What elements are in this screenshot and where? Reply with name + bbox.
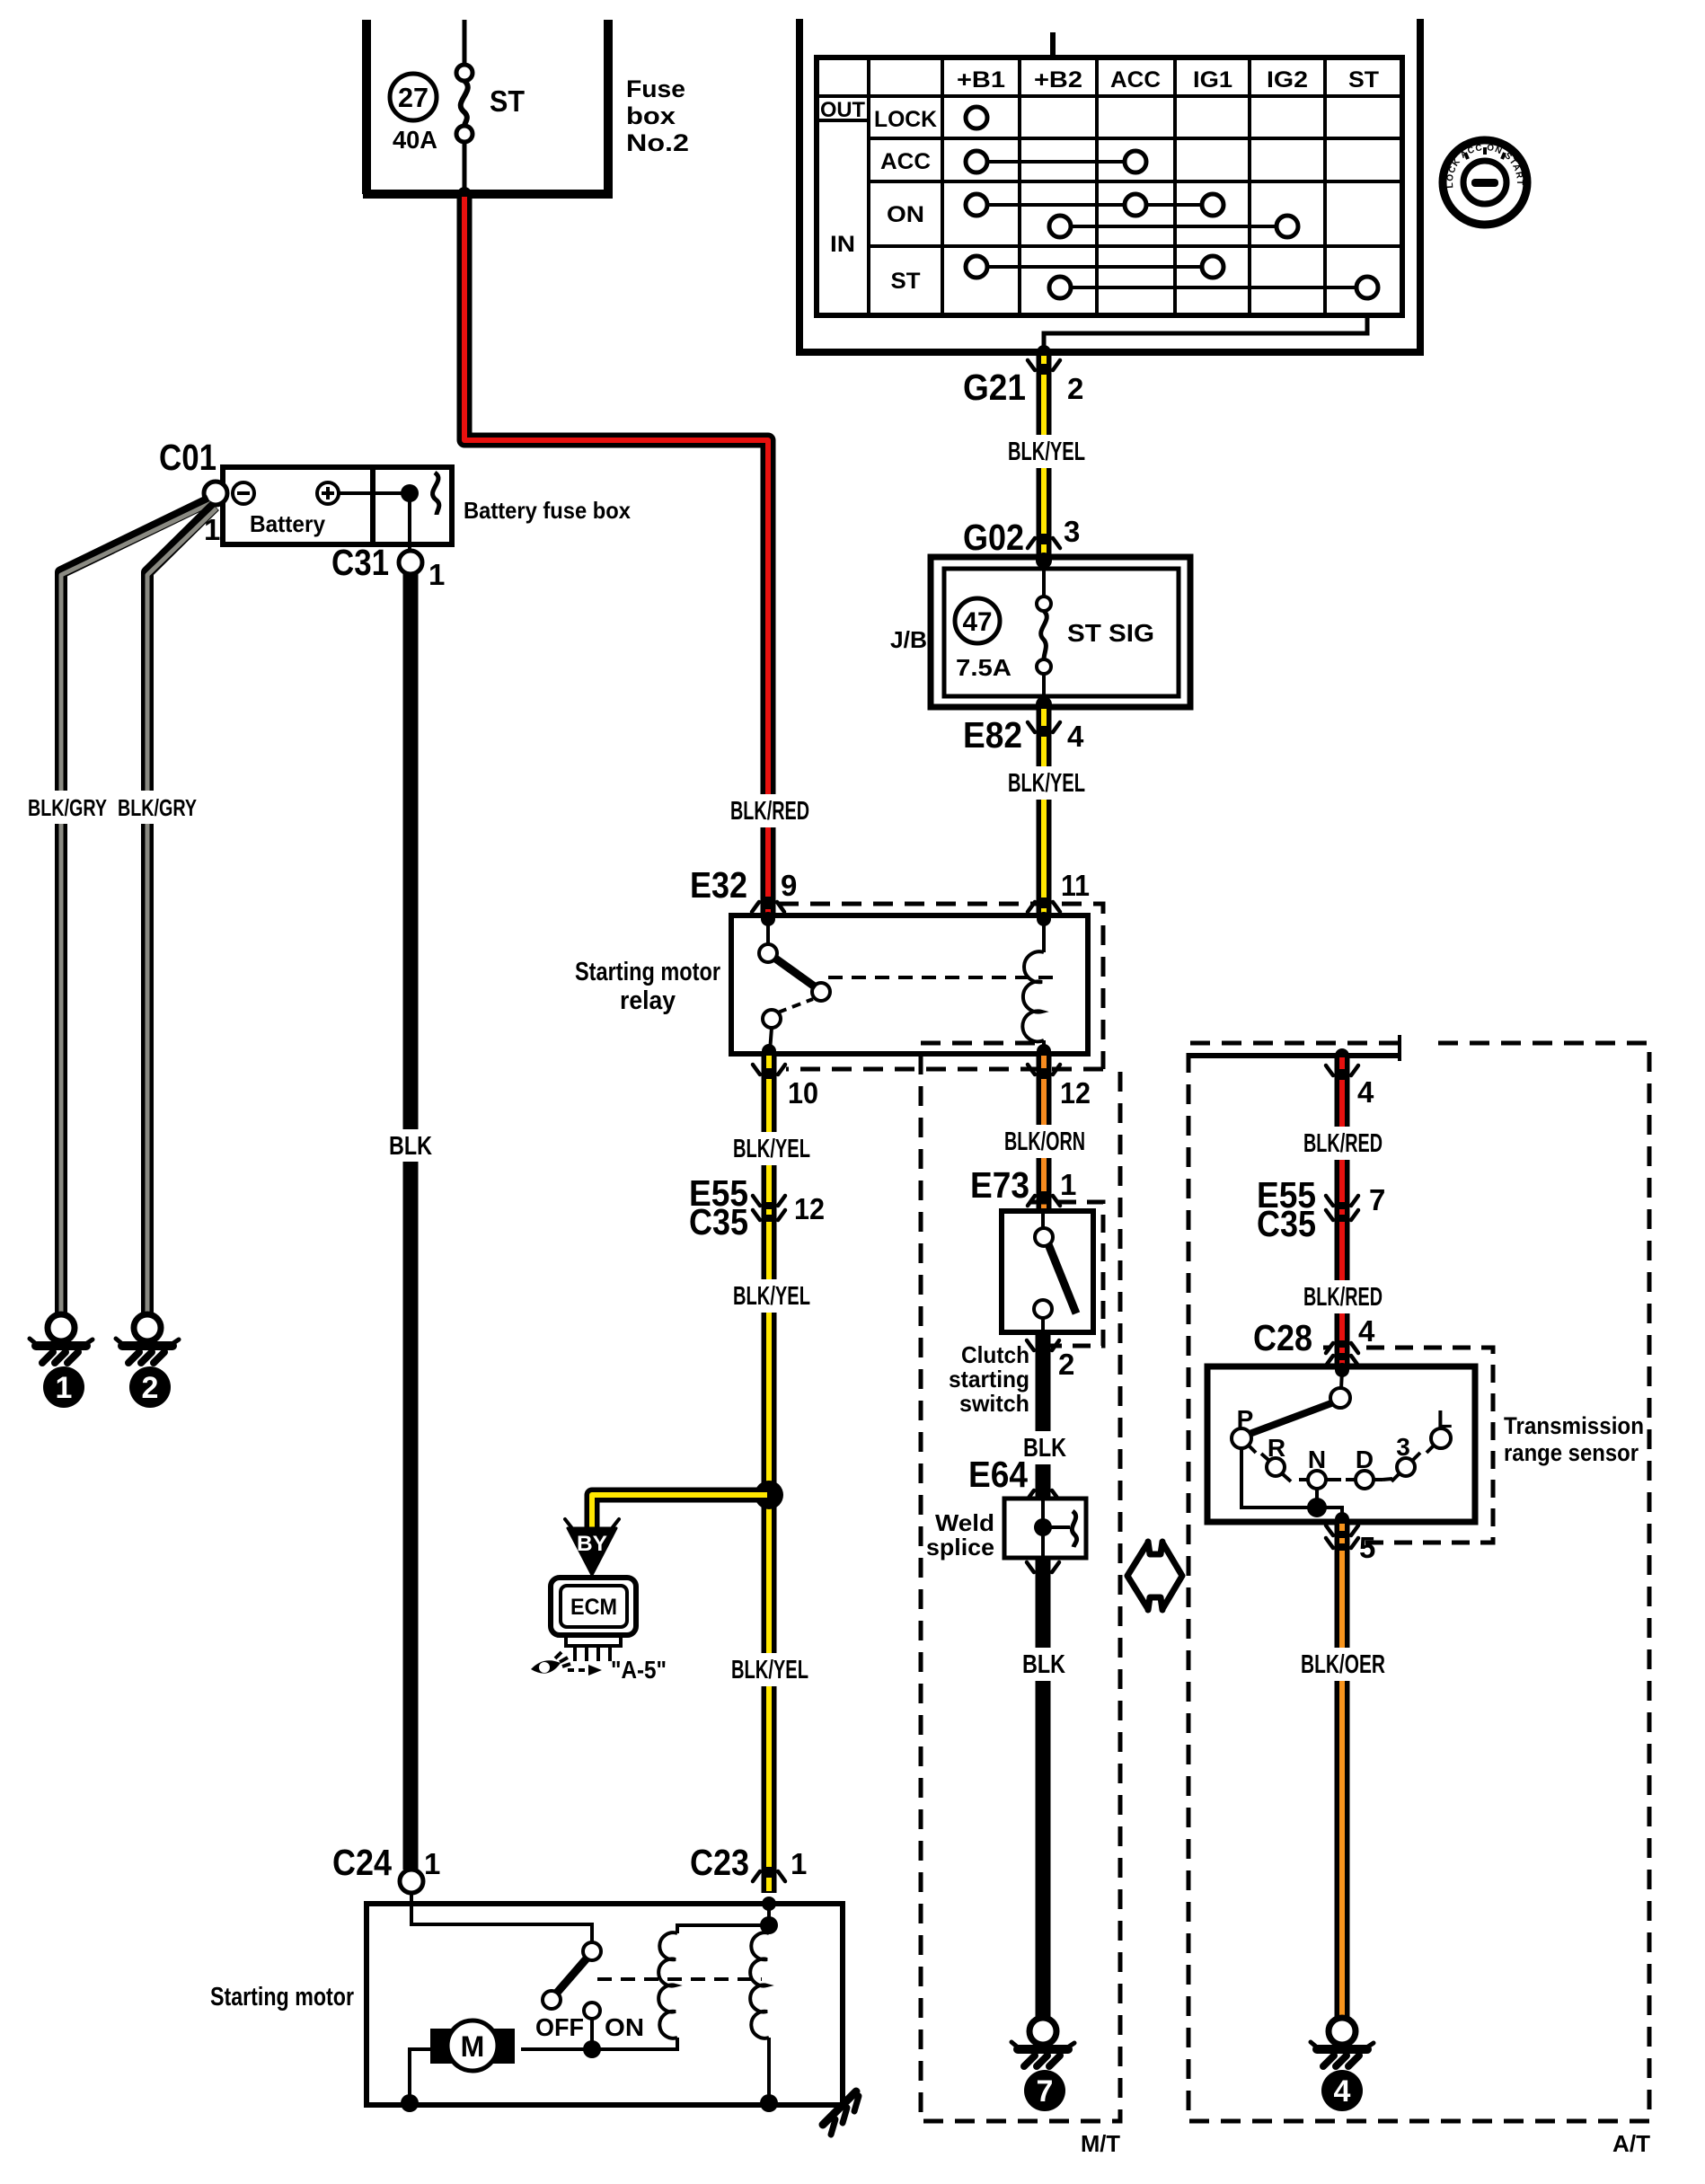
svg-text:3: 3: [1396, 1433, 1410, 1461]
dashed link N to D: [1335, 1478, 1347, 1481]
fuse 47 ST SIG symbol: [1037, 597, 1051, 611]
sensor output junction node: [1307, 1498, 1327, 1517]
wire label BLK/GRY (left): [53, 791, 69, 824]
svg-text:A/T: A/T: [1612, 2130, 1650, 2157]
motor to ground lead: [410, 2049, 430, 2102]
fusible link symbol: [433, 473, 439, 515]
fuse number circle 27: [390, 74, 437, 120]
coil 1: [658, 1932, 677, 2038]
svg-text:ACC: ACC: [1110, 67, 1161, 93]
weld splice node: [1034, 1518, 1052, 1536]
clutch switch contacts: [1035, 1228, 1053, 1246]
weld splice branch: [1043, 1525, 1070, 1529]
sensor pivot lead: [1341, 1370, 1342, 1389]
wire label BLK/RED: [1331, 1280, 1353, 1313]
ignition switch box outline: [796, 19, 1424, 352]
svg-text:E82: E82: [963, 714, 1022, 756]
connector G21 pin 2: [1028, 360, 1060, 370]
svg-text:relay: relay: [620, 986, 676, 1015]
svg-text:C35: C35: [689, 1201, 748, 1242]
svg-text:D: D: [1356, 1446, 1374, 1473]
svg-text:47: 47: [963, 607, 993, 637]
svg-text:Weld: Weld: [935, 1509, 994, 1536]
wire label BLK/ORN: [1033, 1125, 1055, 1158]
svg-text:LOCK: LOCK: [874, 107, 937, 132]
svg-text:C35: C35: [1257, 1203, 1316, 1244]
svg-text:11: 11: [1061, 869, 1090, 902]
ignition switch table frame: [817, 57, 1402, 315]
relay switch common lead: [766, 919, 770, 944]
wire BLK battery C31 to C24 (upper part): [403, 574, 419, 1129]
svg-text:12: 12: [794, 1192, 825, 1225]
svg-text:BLK/GRY: BLK/GRY: [28, 794, 107, 821]
svg-text:C24: C24: [332, 1842, 392, 1883]
svg-text:E32: E32: [690, 864, 747, 906]
connector E82 pin 4: [1028, 722, 1060, 732]
A/T dashed box: [1188, 1043, 1649, 2121]
svg-text:1: 1: [428, 558, 445, 591]
svg-text:Battery: Battery: [250, 510, 326, 537]
ACC row contact line: [976, 160, 1135, 164]
chassis ground at motor box corner: [823, 2091, 856, 2125]
svg-text:C23: C23: [690, 1842, 749, 1883]
connector C23 pin 1: [753, 1871, 785, 1881]
svg-text:OUT: OUT: [820, 98, 865, 122]
wire stub at ignition box top: [1050, 32, 1056, 57]
connector pin 10 marks: [753, 1065, 785, 1074]
weld splice internal wire: [1041, 1499, 1045, 1558]
lead to coil 1: [677, 1925, 769, 1933]
svg-text:BLK/YEL: BLK/YEL: [1008, 438, 1085, 466]
fuse number circle 47: [955, 598, 1000, 643]
svg-text:IG2: IG2: [1267, 67, 1308, 93]
ground 7: [1012, 2018, 1074, 2066]
svg-text:2: 2: [1067, 372, 1083, 405]
wire label BLK/OER: [1331, 1648, 1353, 1681]
svg-text:BLK/RED: BLK/RED: [730, 797, 809, 826]
svg-text:BLK: BLK: [389, 1132, 432, 1161]
svg-text:Transmission: Transmission: [1504, 1412, 1644, 1439]
fuse box No.2 outline: [363, 20, 613, 194]
ECM box: [551, 1578, 636, 1635]
connector pin 2 marks: [1027, 1340, 1059, 1350]
connector pin 5 marks (double): [1326, 1525, 1358, 1535]
junction node to ECM branch: [755, 1481, 783, 1509]
fusible link node: [401, 484, 419, 502]
svg-text:M: M: [461, 2030, 485, 2063]
table row lines: [817, 96, 1402, 246]
wire label BLK/GRY (right): [139, 791, 155, 824]
fuse 47 feed wire inside J/B: [1042, 561, 1046, 704]
connector E64 marks: [1027, 1490, 1059, 1500]
weld splice link symbol: [1072, 1511, 1076, 1547]
svg-text:Fuse: Fuse: [626, 75, 685, 102]
connector E32 pin 9: [752, 902, 784, 912]
relay pin 11 node: [1037, 912, 1051, 926]
relay switch arm: [774, 958, 816, 987]
svg-text:+B1: +B1: [957, 67, 1005, 93]
transmission range sensor box: [1207, 1366, 1475, 1522]
motor switch contacts: [583, 1942, 601, 1960]
eye reference symbol: [531, 1660, 561, 1673]
svg-text:ECM: ECM: [570, 1595, 617, 1620]
wire C24 into box: [411, 1893, 592, 1942]
sensor pivot contact: [1330, 1388, 1350, 1408]
clutch switch arm: [1048, 1244, 1076, 1313]
svg-text:Clutch: Clutch: [961, 1341, 1029, 1368]
motor switch arm: [557, 1959, 587, 1993]
relay actuation dashed line: [828, 976, 1053, 979]
svg-text:N: N: [1308, 1446, 1326, 1473]
ON row lower contact line: [1060, 225, 1287, 228]
ground 1: [30, 1314, 93, 1363]
connector C24 pin 1: [400, 1870, 423, 1893]
relay switch to pin 10 lead: [770, 1028, 772, 1051]
motor M: [430, 2029, 455, 2064]
svg-text:12: 12: [1060, 1076, 1091, 1110]
switch to motor lead: [590, 2019, 594, 2049]
A/T feed solid bar: [1190, 1053, 1398, 1058]
wire label BLK/YEL: [1033, 766, 1055, 800]
node at A/T feed bar: [1335, 1048, 1349, 1063]
svg-text:OFF: OFF: [535, 2013, 584, 2041]
wire BLK/RED A/T feed to sensor: [1335, 1056, 1350, 1366]
relay coil lead to pin 12: [1042, 1040, 1046, 1051]
coil junction node: [760, 1916, 778, 1934]
svg-text:R: R: [1268, 1434, 1285, 1462]
svg-text:7.5A: 7.5A: [956, 654, 1012, 681]
svg-text:IG1: IG1: [1193, 67, 1232, 93]
svg-text:L: L: [1436, 1405, 1452, 1433]
battery minus terminal: [233, 482, 254, 504]
node G21 at ignition box bottom: [1037, 345, 1051, 359]
dashed arrow to A-5: [568, 1668, 588, 1672]
connector G02 pin 3: [1028, 538, 1060, 548]
BY arrow: [568, 1528, 616, 1575]
svg-text:Battery fuse box: Battery fuse box: [464, 497, 631, 524]
ST row upper contact line: [976, 265, 1213, 269]
svg-text:5: 5: [1359, 1531, 1375, 1564]
svg-text:IN: IN: [830, 232, 855, 257]
svg-text:7: 7: [1037, 2074, 1054, 2109]
svg-text:E64: E64: [968, 1454, 1028, 1495]
contact P: [1232, 1428, 1251, 1448]
node at J/B bottom: [1036, 696, 1052, 712]
node C23 entry: [762, 1897, 776, 1911]
link D to 3: [1383, 1479, 1392, 1480]
svg-text:BLK/YEL: BLK/YEL: [733, 1135, 810, 1163]
svg-text:4: 4: [1067, 720, 1084, 753]
svg-text:C31: C31: [331, 542, 389, 583]
svg-text:BLK/ORN: BLK/ORN: [1004, 1127, 1085, 1156]
connector C28 pin 4 (double marks): [1326, 1343, 1358, 1353]
clutch switch dashed enclosure: [1029, 1202, 1103, 1346]
svg-text:box: box: [626, 102, 676, 129]
svg-text:BLK: BLK: [1023, 1434, 1066, 1463]
node on box bottom right: [760, 2094, 778, 2112]
clutch starting switch box: [1002, 1211, 1093, 1332]
svg-text:BLK/RED: BLK/RED: [1303, 1283, 1383, 1312]
sensor output to pin 5: [1317, 1508, 1342, 1518]
svg-text:range sensor: range sensor: [1504, 1439, 1639, 1466]
relay coil lead from pin 11: [1042, 919, 1046, 952]
table column lines: [869, 57, 1325, 315]
contact 3: [1397, 1458, 1415, 1476]
svg-text:P: P: [1237, 1405, 1254, 1433]
sensor entry node: [1335, 1363, 1349, 1377]
connector E73 pin 1: [1028, 1196, 1060, 1206]
svg-text:No.2: No.2: [626, 129, 689, 156]
dashed actuation line in motor: [597, 1977, 762, 1981]
coil 2 to box bottom: [767, 2038, 771, 2103]
connector E55 C35 pin 12 (double marks): [753, 1196, 785, 1206]
svg-text:switch: switch: [959, 1390, 1029, 1417]
svg-text:ST: ST: [891, 269, 921, 294]
wire label BLK: [1032, 1648, 1055, 1681]
starting motor relay box: [731, 915, 1088, 1054]
ground 2: [116, 1314, 179, 1363]
svg-text:40A: 40A: [393, 126, 437, 154]
node at fuse box bottom: [457, 187, 472, 201]
fuse 27 ST symbol: [456, 65, 473, 81]
svg-text:BLK/GRY: BLK/GRY: [118, 794, 197, 821]
wire BLK/YEL J/B to relay pin 11: [1037, 707, 1052, 918]
svg-text:4: 4: [1334, 2074, 1351, 2109]
wire BLK clutch switch to weld splice: [1036, 1332, 1051, 1499]
motor junction node: [583, 2040, 601, 2058]
svg-text:ST: ST: [490, 84, 525, 118]
transmission range sensor dashed enclosure: [1323, 1346, 1330, 1350]
J/B box outer: [931, 557, 1190, 707]
svg-text:G02: G02: [963, 517, 1024, 558]
ST row lower contact line: [1060, 286, 1367, 289]
wire BLK/GRY from C01 to ground 1: [61, 500, 209, 1316]
C23 internal lead: [767, 1904, 771, 1925]
wire BLK/YEL ignition to J/B: [1037, 352, 1052, 557]
OUT cell line: [817, 119, 869, 122]
clutch switch lead: [1041, 1211, 1045, 1228]
svg-text:BLK/YEL: BLK/YEL: [731, 1656, 808, 1684]
svg-text:27: 27: [398, 82, 428, 113]
svg-text:+B2: +B2: [1034, 67, 1082, 93]
svg-text:1: 1: [1060, 1168, 1076, 1201]
svg-text:BY: BY: [577, 1532, 607, 1556]
wire BLK battery C31 to C24 (lower part): [403, 1162, 419, 1870]
ECM connector tab: [566, 1635, 621, 1646]
wire label BLK: [1032, 1431, 1055, 1464]
contact L: [1431, 1428, 1451, 1448]
svg-text:2: 2: [1058, 1348, 1074, 1381]
wire label BLK/YEL: [758, 1132, 780, 1165]
M/T dashed box: [921, 1043, 1120, 2121]
svg-text:Starting motor: Starting motor: [575, 958, 720, 986]
svg-text:"A-5": "A-5": [611, 1656, 667, 1684]
svg-text:4: 4: [1358, 1314, 1375, 1348]
ON row upper contact line: [976, 203, 1213, 207]
wire label BLK/RED: [1331, 1127, 1353, 1160]
svg-text:1: 1: [791, 1847, 807, 1880]
wire BLK/RED relay pin 12... (orange) M/T branch: [1037, 1054, 1052, 1211]
connector pin 4 marks (top): [1326, 1065, 1358, 1075]
connector C01: [204, 482, 227, 505]
node on box bottom left: [401, 2094, 419, 2112]
sensor wiper arm to P: [1250, 1403, 1331, 1434]
starting motor box: [367, 1904, 843, 2105]
relay dashed enclosure: [779, 904, 1103, 1069]
svg-text:Starting motor: Starting motor: [210, 1983, 354, 2012]
wire label BLK/YEL above C23: [758, 1653, 780, 1686]
node at J/B top: [1036, 553, 1052, 569]
relay pin 9 node: [761, 912, 775, 926]
svg-text:C28: C28: [1253, 1317, 1312, 1358]
connector pin 12 marks: [1028, 1065, 1060, 1074]
svg-text:E73: E73: [970, 1164, 1029, 1206]
A/T box top tick: [1398, 1035, 1401, 1061]
wire BLK/RED from fuse box to relay pin 9: [464, 194, 768, 918]
weld splice box: [1004, 1499, 1086, 1558]
svg-text:J/B: J/B: [890, 626, 927, 653]
connector marks below weld splice: [1027, 1562, 1059, 1572]
lead junction to motor: [521, 2047, 592, 2051]
relay switch dashed link: [778, 999, 813, 1012]
svg-text:BLK: BLK: [1022, 1650, 1065, 1679]
wire node to C31: [408, 493, 411, 551]
ground 4: [1311, 2018, 1374, 2066]
contact R: [1267, 1458, 1285, 1476]
battery plus terminal: [317, 482, 339, 504]
wire BLK/OER sensor to ground 4: [1335, 1522, 1350, 2019]
relay pin 10 node: [762, 1044, 776, 1058]
sensor N output line: [1315, 1489, 1319, 1508]
wire BLK weld splice to ground 7: [1036, 1558, 1051, 2019]
svg-text:ON: ON: [605, 2013, 644, 2041]
wire BLK/YEL branch to ECM: [592, 1495, 769, 1539]
svg-text:C01: C01: [159, 437, 216, 478]
wire BLK/YEL relay pin 10 down to C23: [762, 1054, 777, 1893]
J/B box inner: [944, 569, 1179, 696]
connector E55 C35 pin 7 (double marks): [1326, 1196, 1358, 1206]
wire label BLK/YEL: [1033, 435, 1055, 468]
svg-text:BLK/YEL: BLK/YEL: [1008, 769, 1085, 798]
svg-text:ON: ON: [887, 202, 924, 227]
svg-text:7: 7: [1369, 1183, 1385, 1216]
contact N: [1308, 1471, 1326, 1489]
connector C31 pin 1: [399, 551, 422, 574]
relay pin 11 connector marks: [1028, 902, 1060, 912]
contact D: [1356, 1471, 1374, 1489]
svg-text:ST: ST: [1348, 67, 1379, 93]
LOCK contact +B1: [966, 107, 987, 128]
fuse 27 feed wire: [463, 20, 467, 194]
relay coil: [1022, 951, 1044, 1041]
svg-text:BLK/OER: BLK/OER: [1301, 1650, 1385, 1679]
svg-text:BLK/YEL: BLK/YEL: [733, 1282, 810, 1311]
M/T A/T double arrow symbol: [1127, 1542, 1182, 1610]
wire plus terminal to fusible link: [339, 491, 410, 495]
svg-text:starting: starting: [949, 1366, 1029, 1393]
wire label BLK/YEL: [758, 1279, 780, 1313]
svg-text:10: 10: [788, 1076, 818, 1110]
svg-text:M/T: M/T: [1081, 2130, 1120, 2157]
svg-text:1: 1: [56, 1371, 73, 1405]
sensor exit node: [1335, 1512, 1349, 1526]
key cylinder icon: [1443, 140, 1527, 225]
relay pin 12 node: [1037, 1044, 1051, 1058]
svg-text:BLK/RED: BLK/RED: [1303, 1129, 1383, 1158]
coil 2: [750, 1932, 769, 2038]
relay switch contact circles: [759, 944, 777, 962]
lead junction to coil 1 bottom: [592, 2038, 677, 2049]
svg-text:splice: splice: [926, 1534, 994, 1561]
svg-text:2: 2: [142, 1371, 159, 1405]
svg-text:3: 3: [1064, 515, 1080, 548]
wire from ST output to box bottom: [1044, 315, 1367, 352]
svg-text:9: 9: [781, 869, 797, 902]
clutch switch bottom lead: [1041, 1318, 1045, 1332]
svg-text:ST SIG: ST SIG: [1067, 619, 1154, 647]
svg-text:ACC: ACC: [880, 149, 931, 174]
sensor P output line: [1241, 1448, 1317, 1508]
svg-text:4: 4: [1357, 1075, 1374, 1109]
svg-text:1: 1: [424, 1847, 440, 1880]
wire BLK/GRY from C01 to ground 2: [147, 506, 215, 1316]
battery / battery fuse box outline: [223, 467, 452, 544]
svg-text:G21: G21: [963, 367, 1026, 408]
